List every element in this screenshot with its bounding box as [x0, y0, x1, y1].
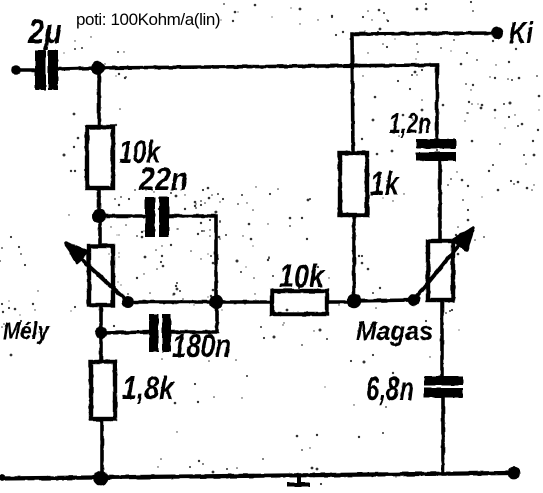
- wire lower junction to C3: [101, 332, 150, 333]
- svg-text:poti: 100Kohm/a(lin): poti: 100Kohm/a(lin): [76, 10, 220, 29]
- wire node C up to R4: [352, 215, 356, 302]
- node A junction: [92, 209, 106, 223]
- potentiometer P2 wiper arrow: [414, 228, 473, 300]
- resistor R3 10k: [272, 291, 327, 314]
- wire C1 to input node: [58, 68, 98, 69]
- capacitor C5 6,8n: [424, 376, 463, 398]
- svg-text:Ki: Ki: [509, 15, 534, 50]
- wire node C to P2 wiper: [354, 300, 414, 301]
- node input terminal: [11, 65, 21, 75]
- node B junction: [209, 295, 223, 309]
- ground symbol: [287, 475, 310, 485]
- wire R4 up and right to output Ki: [352, 33, 497, 153]
- svg-text:180n: 180n: [172, 327, 231, 364]
- svg-text:1,2n: 1,2n: [389, 108, 431, 140]
- svg-text:Mély: Mély: [3, 318, 50, 345]
- resistor R4 1k: [340, 153, 367, 215]
- wire top rail input node to treble cap branch: [98, 65, 437, 140]
- svg-text:22n: 22n: [138, 161, 188, 197]
- node P1 wiper dot: [122, 296, 134, 308]
- wire input terminal to C1: [16, 68, 36, 72]
- wire node B to R3: [216, 300, 273, 304]
- capacitor C1 2u: [35, 50, 58, 90]
- node P1 bottom junction: [95, 327, 107, 339]
- wire input node down to R1: [97, 68, 101, 128]
- svg-text:1k: 1k: [370, 165, 400, 202]
- wire C2 to node B via right bend: [169, 216, 216, 302]
- node P2 wiper dot: [408, 294, 420, 306]
- svg-text:2μ: 2μ: [27, 13, 62, 51]
- potentiometer P1 wiper arrow: [66, 243, 128, 302]
- node Ki terminal: [491, 27, 503, 39]
- wire R2 to ground rail: [100, 419, 104, 478]
- node ground rail left end: [0, 475, 5, 482]
- wire P1 bottom to lower junction: [99, 305, 103, 334]
- wire ground rail: [0, 473, 514, 479]
- wire R3 to node C: [327, 300, 354, 304]
- capacitor C2 22n: [145, 197, 169, 237]
- node IN junction: [91, 61, 105, 75]
- resistor R1 10k: [87, 127, 113, 188]
- wire node A to C2: [99, 214, 146, 218]
- wire lower junction down to R2: [99, 334, 103, 363]
- capacitor C3 180n: [149, 314, 171, 352]
- node C junction: [347, 294, 361, 308]
- wire node A down to P1 top: [98, 216, 102, 247]
- svg-text:10k: 10k: [279, 258, 326, 294]
- wire C3 to node B via right bend: [171, 302, 217, 332]
- node ground right terminal: [508, 467, 521, 480]
- wire P2 bottom to C5: [440, 300, 444, 377]
- node ground junction R2: [94, 471, 109, 486]
- capacitor C4 1,2n: [416, 139, 456, 161]
- svg-text:1,8k: 1,8k: [122, 370, 176, 406]
- resistor R2 1.8k: [91, 362, 115, 419]
- svg-text:Magas: Magas: [356, 316, 433, 346]
- wire C5 to ground rail: [441, 397, 445, 475]
- potentiometer P1 Mely body: [89, 246, 113, 305]
- svg-text:6,8n: 6,8n: [366, 370, 414, 407]
- wire P1 wiper to node B: [128, 300, 216, 304]
- wire R1 to node A: [97, 188, 101, 216]
- potentiometer P2 Magas body: [428, 241, 453, 300]
- wire C4 to P2 top: [438, 161, 442, 242]
